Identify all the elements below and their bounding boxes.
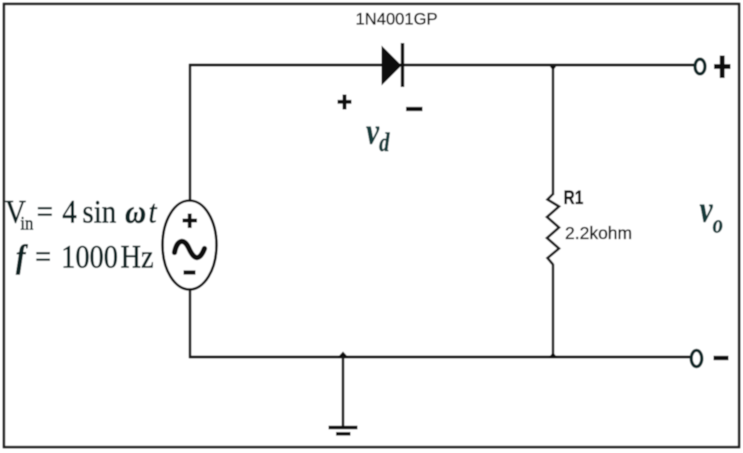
svg-text:R1: R1 (564, 187, 584, 209)
svg-text:ω: ω (125, 193, 146, 230)
svg-text:1N4001GP: 1N4001GP (356, 10, 438, 29)
wire: bottom horizontal (ground net) (189, 355, 692, 358)
svg-text:1000: 1000 (61, 239, 118, 275)
label vo (700, 189, 724, 239)
AC source plus mark (183, 214, 198, 229)
output minus mark (714, 356, 729, 360)
AC source sine wave (175, 241, 205, 257)
terminal circle top right (695, 59, 705, 74)
svg-text:4: 4 (62, 193, 77, 230)
svg-text:in: in (20, 213, 33, 234)
wire: top horizontal (node A) (189, 64, 694, 67)
label vd (366, 111, 391, 157)
junction at resistor bottom (549, 353, 558, 358)
ground symbol bar 2 (336, 432, 351, 436)
ground symbol bar 1 (329, 426, 358, 430)
diode D1 cathode bar (401, 43, 404, 87)
diode plus polarity mark (338, 95, 352, 110)
output plus mark (714, 56, 731, 79)
diode minus polarity mark (406, 107, 423, 111)
wire: resistor branch lower (552, 264, 555, 357)
AC source V1 circle (163, 201, 217, 290)
junction at resistor top (550, 66, 557, 71)
svg-text:2.2kohm: 2.2kohm (565, 223, 632, 243)
terminal circle bottom right (691, 350, 702, 366)
svg-text:Hz: Hz (120, 239, 153, 275)
ground junction node (338, 352, 349, 358)
label Vin = 4 sin wt (5, 193, 158, 234)
wire: left vertical above source (189, 64, 192, 201)
label R1 (564, 187, 584, 209)
wire: left vertical below source (189, 289, 192, 358)
svg-text:=: = (35, 239, 51, 275)
svg-text:=: = (37, 193, 53, 230)
label f = 1000 Hz (16, 239, 154, 275)
AC source minus mark (184, 270, 196, 274)
svg-text:sin: sin (82, 193, 116, 230)
diode D1 triangle (anode) (382, 46, 402, 86)
wire: resistor branch upper (552, 64, 555, 195)
svg-text:t: t (148, 193, 157, 230)
resistor R1 zigzag (547, 194, 559, 265)
wire: ground stem (342, 357, 345, 427)
